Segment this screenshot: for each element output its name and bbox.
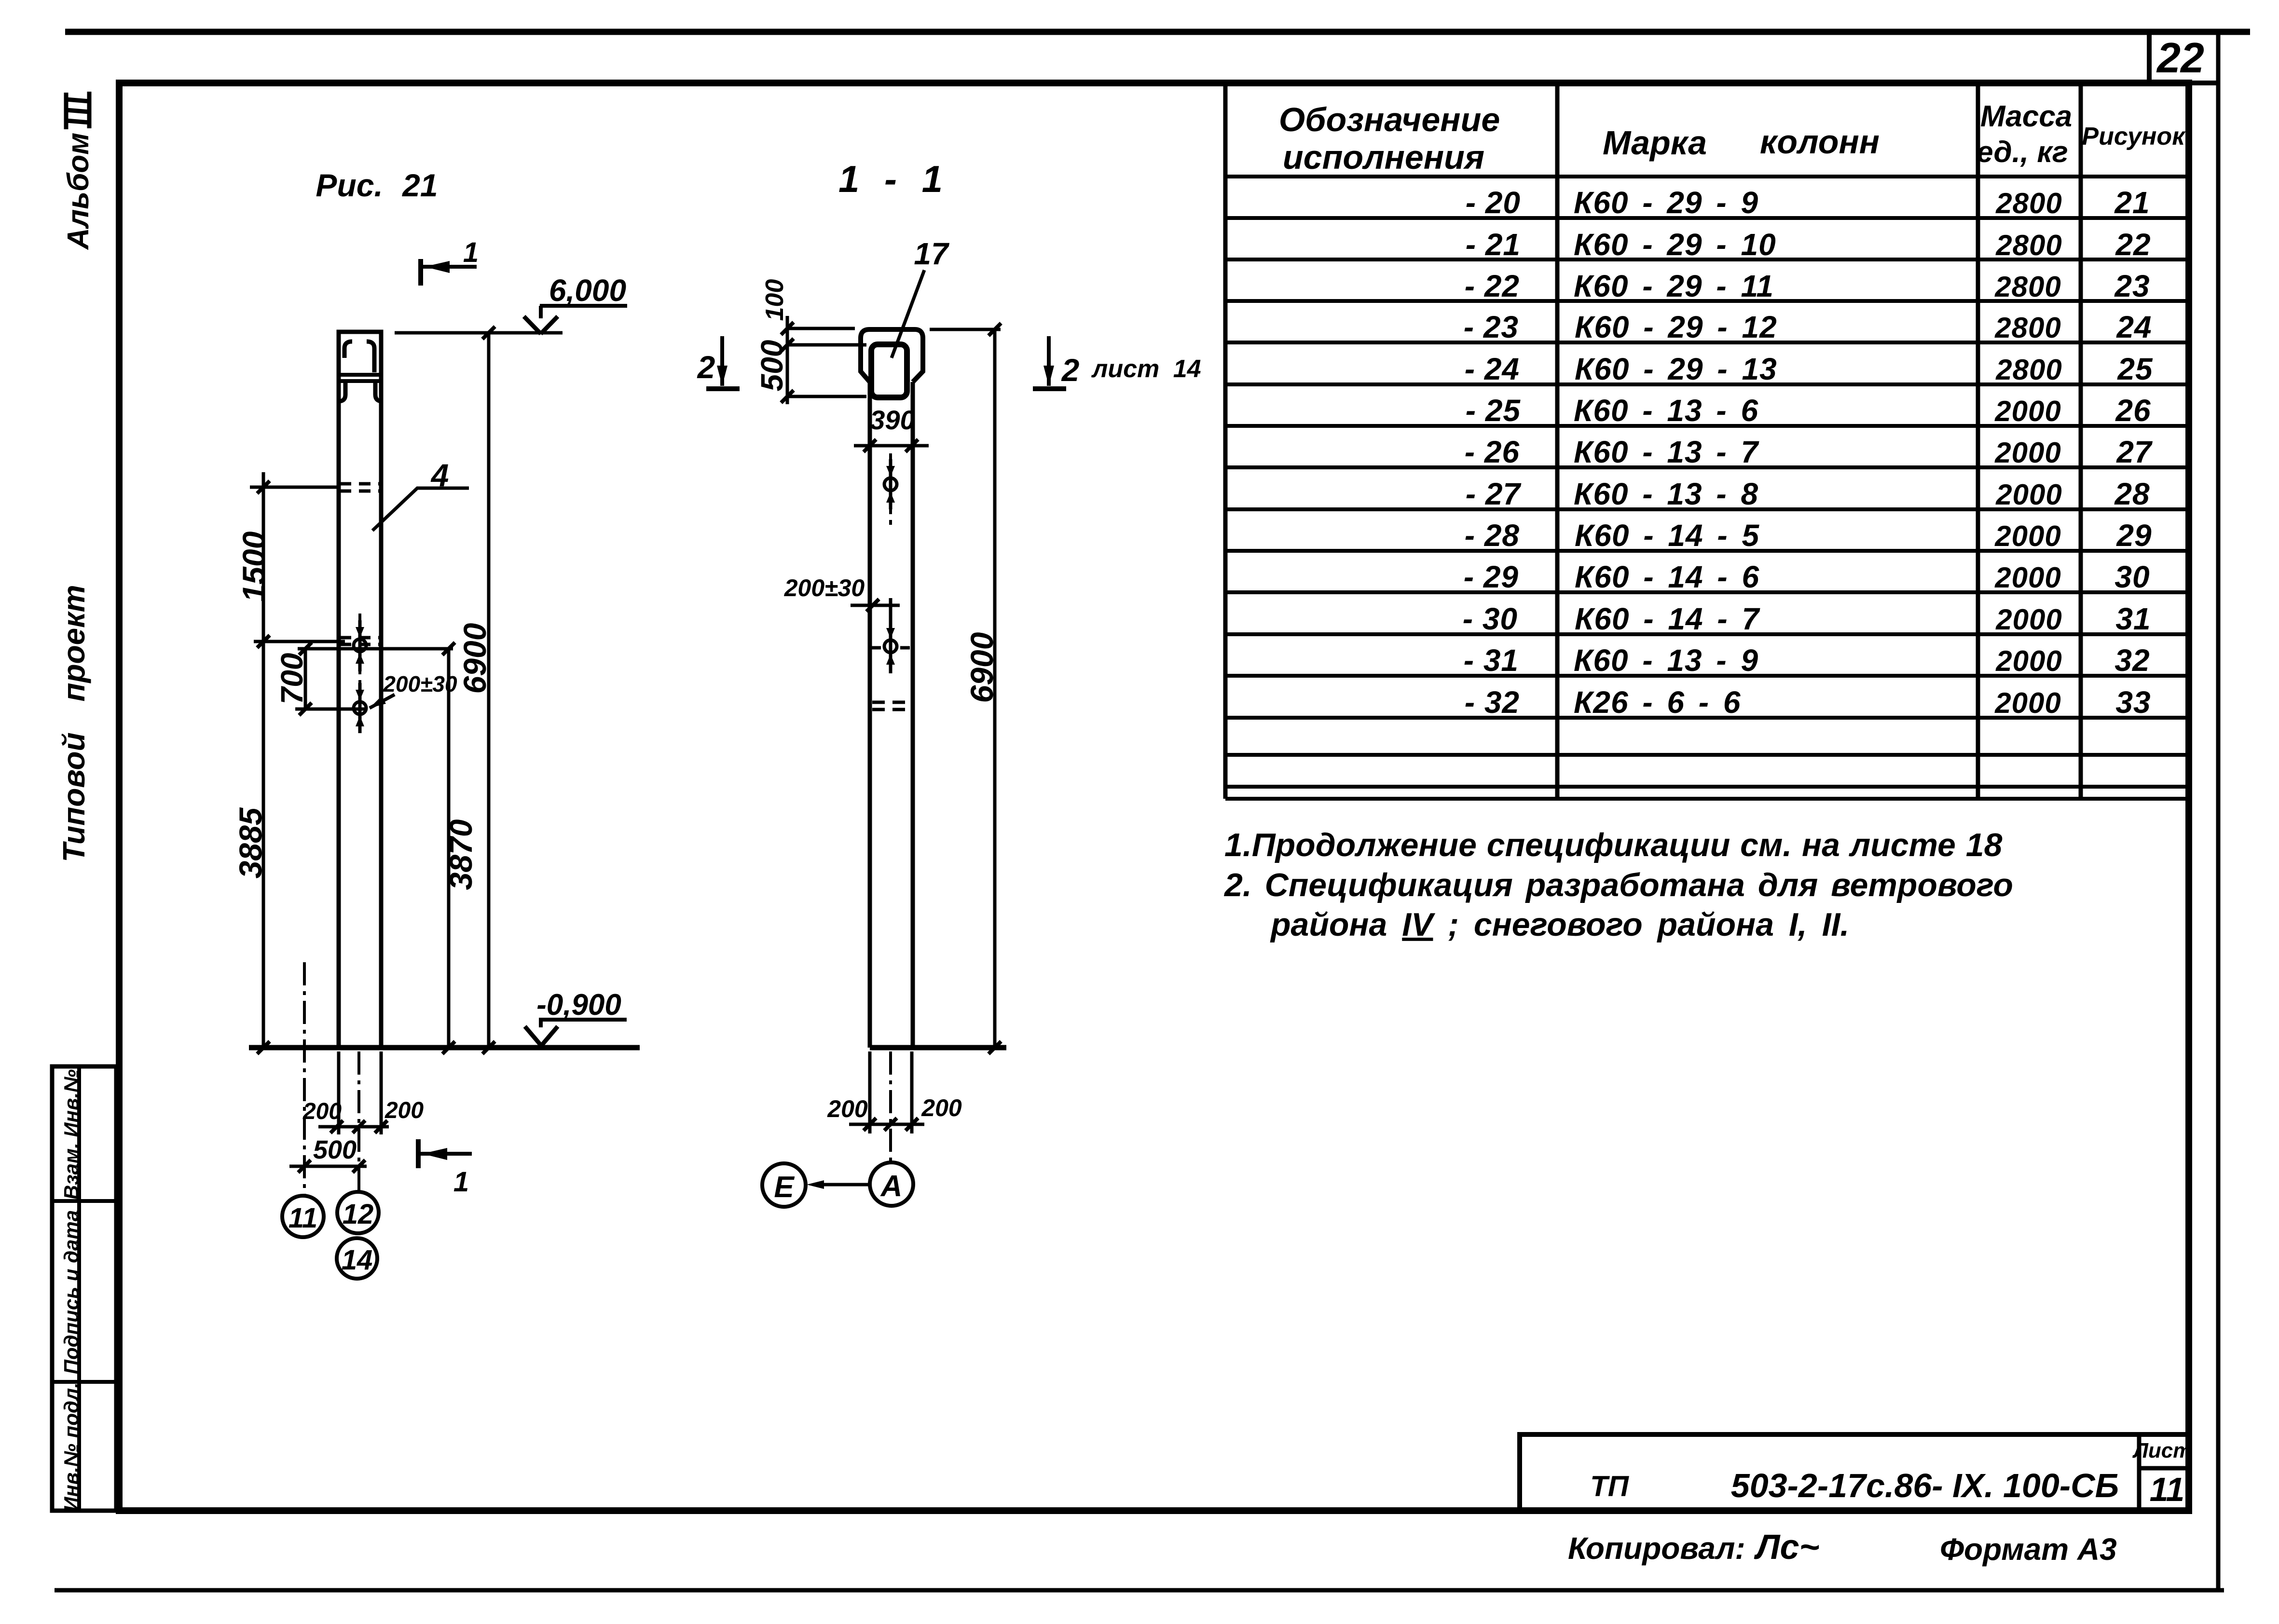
svg-text:31: 31 (2115, 601, 2151, 636)
column edge stubs below base (section) (870, 1051, 912, 1133)
head dimension extension lines (781, 316, 866, 404)
svg-text:К60 - 29 - 10: К60 - 29 - 10 (1574, 227, 1776, 262)
svg-text:- 30: - 30 (1463, 601, 1518, 636)
dimension 200±30 (left view) (370, 671, 457, 708)
svg-text:Взам. Инв.№: Взам. Инв.№ (60, 1069, 82, 1200)
svg-text:К60 - 14 - 7: К60 - 14 - 7 (1575, 601, 1760, 636)
dimension text 6900 (section) (964, 632, 1000, 703)
svg-text:3870: 3870 (443, 819, 479, 890)
level joint (dashed) at 700 mark (254, 635, 381, 648)
svg-text:К60 - 29 - 12: К60 - 29 - 12 (1575, 310, 1777, 344)
svg-text:29: 29 (2116, 518, 2152, 553)
leader 17 (892, 236, 950, 358)
dimension text 500 (head) (755, 340, 789, 392)
svg-text:Лс~: Лс~ (1754, 1528, 1820, 1567)
svg-text:6900: 6900 (964, 632, 1000, 703)
project label "Типовой проект" (56, 585, 91, 862)
svg-text:1: 1 (463, 237, 479, 268)
svg-text:500: 500 (313, 1135, 357, 1164)
svg-text:Подпись и дата: Подпись и дата (60, 1210, 82, 1374)
svg-text:25: 25 (2117, 352, 2153, 386)
svg-text:исполнения: исполнения (1283, 138, 1484, 176)
svg-text:100: 100 (761, 279, 789, 321)
svg-text:1 - 1: 1 - 1 (838, 158, 943, 200)
svg-text:1: 1 (453, 1166, 469, 1198)
svg-text:200: 200 (384, 1098, 424, 1123)
section mark 2 (left) (697, 336, 740, 389)
svg-text:К60 - 29 - 13: К60 - 29 - 13 (1575, 352, 1777, 386)
dimension text 3870 (443, 819, 479, 890)
column centerline (358, 614, 361, 726)
dimension 700 (275, 649, 366, 715)
svg-text:К60 - 14 - 6: К60 - 14 - 6 (1575, 560, 1759, 594)
svg-text:Марка: Марка (1603, 124, 1707, 162)
leader 4 (372, 457, 469, 531)
svg-text:2000: 2000 (1994, 520, 2061, 552)
lifting anchor (upper) (354, 620, 366, 671)
svg-text:ТП: ТП (1590, 1470, 1630, 1502)
axis centerline below base (section) (889, 1051, 892, 1161)
svg-text:- 29: - 29 (1464, 560, 1519, 594)
level joint (dashed) at 1500 mark (250, 481, 381, 493)
svg-text:Е: Е (774, 1171, 795, 1204)
svg-text:12: 12 (343, 1199, 374, 1230)
axis line 11 (303, 962, 306, 1196)
svg-text:2000: 2000 (1994, 395, 2061, 427)
column head cap outline (861, 329, 923, 382)
dimension line 3870 (447, 649, 451, 1048)
svg-text:200: 200 (921, 1094, 962, 1121)
svg-text:390: 390 (870, 405, 915, 435)
dimension text 3885 (233, 807, 268, 878)
svg-text:- 21: - 21 (1466, 227, 1521, 262)
svg-text:2: 2 (1061, 352, 1080, 388)
elevation mark -0,900 (525, 988, 627, 1046)
lifting anchor (lower) (354, 683, 366, 733)
svg-text:28: 28 (2114, 477, 2150, 511)
svg-text:22: 22 (2115, 227, 2151, 262)
svg-text:2800: 2800 (1995, 187, 2062, 219)
svg-text:11: 11 (2150, 1471, 2185, 1508)
table rows (1463, 185, 2153, 720)
svg-text:503-2-17с.86- IX. 100-СБ: 503-2-17с.86- IX. 100-СБ (1731, 1467, 2119, 1504)
svg-text:22: 22 (2156, 34, 2204, 82)
svg-text:200±30: 200±30 (383, 671, 457, 696)
svg-text:2800: 2800 (1994, 312, 2061, 344)
dimension line 6900 (left view) (482, 327, 495, 1048)
svg-text:32: 32 (2114, 643, 2150, 678)
column top level line (395, 331, 563, 335)
svg-text:Лист: Лист (2132, 1439, 2192, 1462)
svg-text:23: 23 (2114, 269, 2150, 303)
svg-text:- 20: - 20 (1466, 185, 1521, 220)
svg-text:К60 - 13 - 8: К60 - 13 - 8 (1574, 477, 1758, 511)
svg-text:2000: 2000 (1995, 478, 2062, 511)
section mark 2 (right) + sheet ref (1033, 336, 1201, 389)
sheet top trim line (65, 29, 2250, 35)
svg-text:24: 24 (2116, 310, 2152, 344)
base line (section) (870, 1045, 1006, 1051)
dimension text 100 (761, 279, 789, 321)
svg-text:2000: 2000 (1994, 437, 2061, 469)
svg-text:2: 2 (697, 349, 715, 385)
svg-text:Копировал:: Копировал: (1568, 1531, 1745, 1566)
svg-text:26: 26 (2115, 393, 2151, 428)
svg-text:Рисунок: Рисунок (2082, 123, 2186, 150)
svg-text:К60 - 29 - 9: К60 - 29 - 9 (1574, 185, 1758, 220)
svg-text:К60 - 29 - 11: К60 - 29 - 11 (1574, 269, 1774, 303)
svg-text:2800: 2800 (1995, 354, 2062, 386)
svg-text:3885: 3885 (233, 807, 268, 878)
svg-text:14: 14 (342, 1244, 373, 1276)
svg-text:33: 33 (2115, 685, 2151, 720)
svg-text:6900: 6900 (457, 623, 493, 694)
base ticks (257, 1041, 495, 1054)
svg-text:К60 - 14 - 5: К60 - 14 - 5 (1575, 518, 1759, 553)
sheet bottom trim line (55, 1588, 2224, 1593)
svg-text:200±30: 200±30 (784, 574, 865, 601)
section mark 1 (bottom) (418, 1139, 472, 1198)
dimension text 6900 (left view) (457, 623, 493, 694)
svg-text:К60 - 13 - 9: К60 - 13 - 9 (1574, 643, 1758, 678)
svg-text:Формат А3: Формат А3 (1940, 1532, 2117, 1567)
elevation mark 6,000 (524, 273, 627, 334)
dimension line 1500/3885 (262, 472, 265, 1048)
svg-text:К60 - 13 - 6: К60 - 13 - 6 (1574, 393, 1758, 428)
svg-text:2000: 2000 (1994, 561, 2061, 594)
dimension 200±30 (section) (784, 574, 900, 627)
column body (section) (870, 382, 913, 1048)
svg-text:- 32: - 32 (1465, 685, 1520, 720)
title block box (1520, 1434, 2189, 1511)
svg-text:21: 21 (2114, 185, 2150, 220)
svg-text:500: 500 (755, 340, 789, 392)
svg-text:11: 11 (288, 1202, 317, 1234)
svg-text:А: А (880, 1170, 903, 1203)
svg-text:-0,900: -0,900 (536, 988, 621, 1022)
svg-text:2000: 2000 (1995, 645, 2062, 677)
svg-text:- 22: - 22 (1465, 269, 1520, 303)
axis bubble А (870, 1162, 913, 1206)
svg-text:- 31: - 31 (1464, 643, 1519, 678)
stamp label "Инв.№ подл." (60, 1382, 82, 1511)
dimension text 1500 (236, 531, 272, 602)
svg-text:лист 14: лист 14 (1091, 355, 1201, 383)
svg-text:1500: 1500 (236, 531, 272, 602)
svg-text:ед., кг: ед., кг (1977, 136, 2068, 169)
svg-text:17: 17 (914, 236, 950, 271)
column K60 outline (elevation) (339, 332, 381, 1048)
socket recess (871, 344, 907, 397)
column centerline (section) (889, 453, 892, 526)
svg-text:- 27: - 27 (1466, 477, 1522, 511)
dimension 200/200 (left view) (302, 1098, 424, 1133)
svg-text:К26 - 6 - 6: К26 - 6 - 6 (1574, 685, 1741, 720)
svg-text:1.Продолжение спецификации с: 1.Продолжение спецификации см. на листе … (1224, 827, 2003, 863)
lifting anchor (section, lower) (884, 623, 897, 673)
svg-text:2800: 2800 (1995, 229, 2062, 261)
svg-text:Инв.№ подл.: Инв.№ подл. (60, 1382, 82, 1511)
svg-text:Типовой проект: Типовой проект (56, 585, 91, 862)
lifting anchor (section, upper) (884, 459, 897, 509)
svg-text:30: 30 (2114, 560, 2150, 594)
dimension line 6900 (section) (988, 329, 1001, 1054)
axis bubble Е (762, 1163, 806, 1207)
axis bubble 12 (337, 1192, 379, 1233)
svg-text:2800: 2800 (1994, 271, 2061, 303)
svg-text:Рис. 21: Рис. 21 (316, 167, 438, 203)
svg-text:- 26: - 26 (1465, 435, 1520, 469)
svg-text:2000: 2000 (1994, 687, 2061, 719)
svg-text:6,000: 6,000 (549, 273, 626, 308)
svg-text:- 28: - 28 (1465, 518, 1520, 553)
dimension 390 (854, 405, 929, 452)
axis line 12 (357, 1051, 360, 1192)
base ground line (left view) (249, 1045, 640, 1051)
album label "Альбом III" (62, 92, 95, 250)
stamp column boxes (52, 1066, 116, 1511)
axis bubble 14 (337, 1238, 377, 1279)
svg-text:района IV ; снегового района: района IV ; снегового района I, II. (1270, 906, 1849, 943)
stamp label "Подпись и дата" (60, 1210, 82, 1374)
svg-text:Альбом: Альбом (62, 133, 95, 250)
svg-text:2. Спецификация разработана: 2. Спецификация разработана для ветровог… (1223, 867, 2013, 903)
svg-text:- 23: - 23 (1464, 310, 1519, 344)
joint dashes at anchor level (871, 646, 910, 650)
svg-text:- 24: - 24 (1465, 352, 1520, 386)
stamp label "Взам. Инв.№" (60, 1069, 82, 1200)
svg-text:Обозначение: Обозначение (1279, 101, 1500, 138)
svg-text:колонн: колонн (1760, 123, 1880, 161)
main drawing frame (119, 83, 2189, 1511)
specification table grid (1225, 84, 2189, 799)
extension line 3870 top (298, 642, 455, 655)
svg-text:200: 200 (827, 1095, 868, 1122)
lower joint (double dashed) (872, 702, 911, 710)
svg-text:2000: 2000 (1995, 603, 2062, 636)
svg-text:27: 27 (2116, 435, 2153, 469)
axis bubble 11 (282, 1196, 324, 1237)
embedded bracket detail at column head (339, 341, 382, 401)
svg-text:К60 - 13 - 7: К60 - 13 - 7 (1574, 435, 1759, 469)
svg-text:- 25: - 25 (1466, 393, 1521, 428)
arrow from А to Е (807, 1180, 869, 1189)
column edge extension stubs below base (339, 1051, 381, 1134)
dimension 200/200 (section) (827, 1094, 962, 1131)
dimension 500 (289, 1135, 367, 1173)
svg-text:Масса: Масса (1980, 100, 2072, 133)
top level line to 6900 dimension (930, 323, 1001, 336)
sheet right trim line (2216, 32, 2221, 1590)
section mark 1 (top) (421, 237, 479, 286)
page number box 22 (2149, 32, 2218, 83)
svg-text:200: 200 (302, 1099, 342, 1124)
svg-text:700: 700 (275, 653, 309, 705)
